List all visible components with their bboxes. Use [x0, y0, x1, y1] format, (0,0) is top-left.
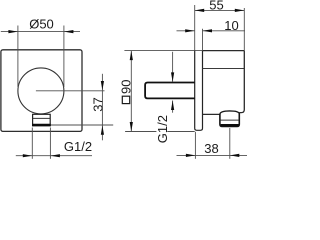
37 arrow top (points down at center line) — [101, 81, 104, 90]
Ø50 extension line right — [63, 26, 65, 88]
svg-text:G1/2: G1/2 — [155, 115, 170, 143]
svg-text:90: 90 — [119, 80, 134, 94]
10 arrow right (outside) — [203, 29, 213, 32]
55 extension left (wall plane above) — [194, 5, 196, 51]
G1/2 side arrow up — [171, 101, 174, 111]
37 extension line (nut bottom extended) — [51, 124, 113, 126]
front view square plate 90x90 — [1, 50, 82, 132]
spigot G1/2 (into wall) top edge — [145, 83, 195, 99]
square-90 label (rotated, square glyph + 90) — [119, 80, 134, 104]
nozzle cap outline — [220, 113, 239, 127]
G1/2 arrow left — [23, 154, 33, 157]
G1/2 side dim line upper — [172, 52, 174, 82]
G1/2 dimension line (front view) — [16, 155, 92, 157]
body inner step line — [203, 68, 245, 70]
37 arrow bottom (points up at nut bottom line) — [101, 125, 104, 134]
38 extension left (wall plane below) — [194, 132, 196, 159]
55 extension right (front face above) — [243, 8, 245, 51]
body top edge — [203, 50, 245, 52]
G1/2 side dim line lower — [172, 101, 174, 113]
Ø50 extension line left — [17, 26, 19, 88]
svg-text:Ø50: Ø50 — [29, 17, 54, 32]
center leader line — [36, 90, 105, 92]
38 extension right (nozzle axis) — [229, 128, 231, 159]
10 dimension line right part — [203, 30, 246, 32]
10 arrow left (outside) — [185, 29, 195, 32]
Ø50 arrow left — [8, 30, 18, 33]
square-90 arrow bottom — [130, 122, 133, 132]
square-90 top extension line — [124, 50, 203, 52]
nozzle bottom thick band — [221, 124, 239, 126]
square-90 dimension line — [130, 51, 132, 132]
G1/2 extension line left (front view) — [31, 128, 33, 159]
G1/2 extension line right (front view) — [49, 128, 51, 159]
55 arrow right (inside) — [235, 9, 245, 12]
Ø50 dimension line — [1, 31, 80, 33]
svg-text:37: 37 — [90, 97, 105, 111]
svg-text:55: 55 — [209, 0, 223, 13]
10 dimension line left part — [177, 30, 195, 32]
body front face — [239, 51, 244, 113]
37 dimension line — [101, 74, 103, 141]
55 arrow left (inside) — [195, 9, 205, 12]
square-90 arrow top — [130, 51, 133, 61]
Ø50 arrow right — [64, 30, 74, 33]
G1/2 arrow right — [50, 154, 60, 157]
55 dimension line — [195, 9, 245, 11]
square-90 bottom extension line — [125, 131, 156, 133]
front view circle boss Ø50 — [18, 68, 64, 114]
svg-text:G1/2: G1/2 — [64, 139, 92, 154]
38 dimension line — [177, 154, 248, 156]
svg-text:10: 10 — [224, 18, 238, 33]
38 arrow right (outside) — [230, 154, 240, 157]
body bottom left edge — [203, 113, 220, 115]
outlet nut front (below circle) — [33, 114, 51, 125]
side view wall plate back face — [195, 51, 203, 131]
G1/2 side arrow down — [171, 72, 174, 82]
10 extension right (plate front above) — [202, 29, 204, 51]
38 arrow left (outside) — [186, 154, 196, 157]
nozzle top arc — [220, 111, 239, 114]
nozzle inner line — [220, 119, 238, 121]
svg-text:38: 38 — [204, 141, 218, 156]
